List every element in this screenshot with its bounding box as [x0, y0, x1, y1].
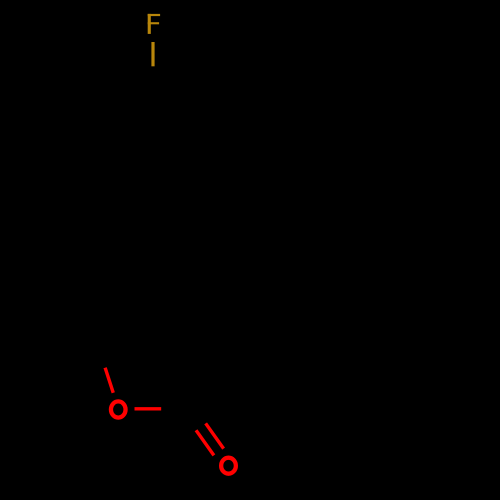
bond F1-Cb1 lower half (carbon side, black)	[151, 66, 154, 90]
bond O1-C2 oxygen half (red)	[135, 407, 162, 410]
double bond C2=O3 line b oxygen half (red)	[196, 430, 214, 455]
bond Cb4-C4 (black)	[152, 231, 155, 302]
lactone ring carbon bonds (black on black)	[97, 302, 209, 409]
bond O1-C5 oxygen half (red)	[105, 368, 113, 393]
bond F1-Cb1 upper half (fluorine side, goldenrod)	[151, 42, 154, 66]
bond O1-C5 carbon half (black)	[97, 343, 105, 368]
double bond C2=O3 line a oxygen half (red)	[206, 423, 224, 448]
atom label F1 (fluorine)	[148, 14, 160, 34]
double bond C2=O3 line b carbon half (black)	[183, 412, 196, 430]
double bond C2=O3 line a carbon half (black)	[193, 405, 206, 423]
atom label O3 (carbonyl oxygen, red)	[221, 458, 236, 474]
bond O1-C2 carbon half (black)	[161, 407, 188, 410]
benzene ring skeleton (carbon bonds, black on black)	[94, 93, 214, 231]
atom label O1 (ring oxygen, red)	[111, 401, 126, 417]
